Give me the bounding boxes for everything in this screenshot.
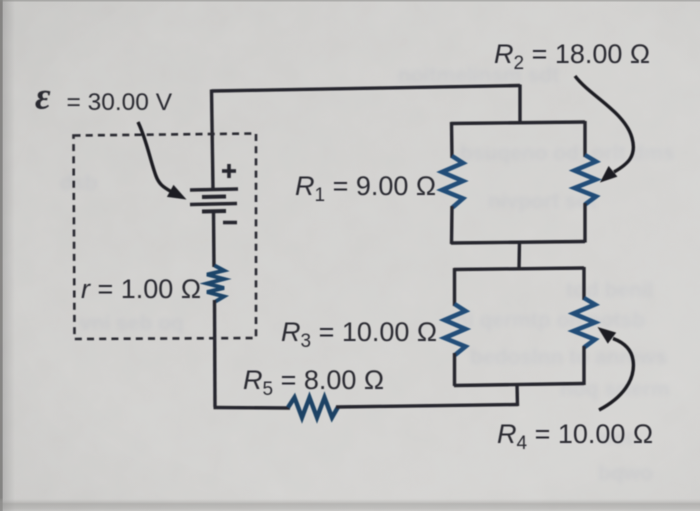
wire: lower box left edge top part bbox=[453, 268, 456, 306]
resistor R3 zigzag bbox=[445, 304, 466, 355]
wire: upper box bottom edge bbox=[451, 242, 585, 244]
resistor R1 zigzag bbox=[442, 156, 463, 208]
resistor R5 zigzag bbox=[288, 398, 338, 418]
wire: left vertical middle (battery - plate down to r) bbox=[212, 212, 216, 267]
wire: left vertical upper (top wire down to battery + plate) bbox=[212, 90, 214, 190]
wire: upper box right edge bottom part bbox=[583, 203, 586, 243]
battery B1 (emf source) bbox=[190, 189, 238, 212]
wire: stub from bottom wire up to lower box bbox=[515, 384, 519, 406]
wire: upper box left edge top part bbox=[450, 122, 454, 158]
wire: bottom horizontal right segment (R5 to stub below lower box) bbox=[336, 405, 518, 408]
battery short plate 2 bbox=[202, 209, 226, 214]
battery long plate 2 bbox=[190, 204, 237, 205]
arrow from R4 label to R4 resistor bbox=[598, 327, 634, 410]
wire: bottom horizontal left segment (to R5) bbox=[214, 406, 291, 410]
wire: upper box left edge bottom part bbox=[450, 206, 454, 244]
wire: top horizontal (battery + node to junction above R1/R2 box) bbox=[212, 86, 521, 92]
battery long plate 1 bbox=[190, 189, 238, 190]
bleed-through ghost text bbox=[60, 64, 675, 485]
resistor r (internal resistance) zigzag bbox=[207, 266, 224, 302]
battery - terminal label bbox=[223, 221, 237, 225]
wire: stub between the two boxes bbox=[517, 241, 521, 269]
resistor R2 zigzag bbox=[575, 155, 597, 205]
paper edge top bbox=[0, 0, 700, 2]
wire: lower box bottom edge bbox=[454, 384, 584, 386]
wire: lower box right edge top part bbox=[582, 267, 585, 300]
wire: lower box right edge bottom part bbox=[582, 346, 585, 385]
wire: upper box top edge bbox=[451, 122, 585, 124]
resistor R4 zigzag bbox=[574, 298, 596, 348]
battery short plate 1 bbox=[202, 195, 226, 200]
wire: lower box left edge bottom part bbox=[453, 353, 456, 386]
dashed box around emf source and r bbox=[74, 134, 257, 340]
arrow from R2 label to R2 resistor bbox=[575, 76, 633, 183]
arrow from emf label to battery bbox=[138, 122, 187, 200]
wire: lower box top edge bbox=[454, 268, 584, 270]
wire: left vertical lower (r down to bottom-left corner) bbox=[213, 300, 217, 407]
paper crease bottom bbox=[0, 498, 700, 511]
paper edge left bbox=[0, 0, 3, 511]
battery + terminal label bbox=[222, 164, 236, 178]
wire: right vertical drop from top wire into upper box bbox=[518, 85, 521, 125]
wire: upper box right edge top part bbox=[583, 121, 586, 157]
